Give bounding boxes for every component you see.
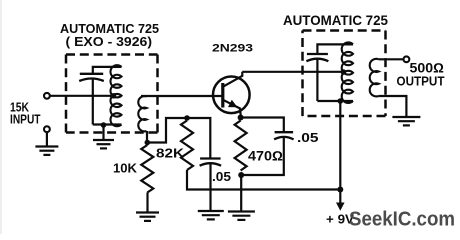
resistor 82K (bias) <box>181 121 193 171</box>
node: emitter junction <box>238 115 244 121</box>
ground: inside T1 box <box>93 139 114 141</box>
wire: 470 bottom to ground <box>240 175 242 212</box>
node: tank bottom / ground junction <box>101 122 107 128</box>
wire: T2 tank cap bottom lead <box>316 59 318 102</box>
wire: bypass cap bottom back to 470 bottom <box>241 137 284 175</box>
svg-text:INPUT: INPUT <box>10 112 41 127</box>
inductor: T1 secondary winding <box>138 96 146 131</box>
node: input tap on T1 primary <box>111 93 117 99</box>
capacitor inside T1 (tank cap) <box>80 73 103 75</box>
transistor base bar <box>221 83 224 108</box>
node: 470 bottom junction <box>238 172 244 178</box>
dashed shield box of transformer T2 <box>303 29 386 32</box>
transistor emitter lead <box>223 100 241 118</box>
output terminal <box>404 56 410 62</box>
wire: T2 secondary top to output terminal <box>379 58 404 60</box>
svg-text:470Ω: 470Ω <box>248 149 283 164</box>
wire: T1 secondary bottom stem <box>146 131 148 143</box>
wire: emitter to bypass cap <box>241 118 284 132</box>
emitter arrowhead (NPN) <box>228 100 238 108</box>
wire: tank cap bottom lead <box>92 78 94 124</box>
wire: ground terminal stem <box>46 132 48 147</box>
scan edge artifact <box>0 0 2 234</box>
svg-text:.05: .05 <box>212 169 231 184</box>
wire: T2 bottom to +9V node <box>339 101 341 190</box>
node: +9V junction <box>337 187 343 193</box>
svg-text:.05: .05 <box>297 130 319 145</box>
svg-text:AUTOMATIC 725: AUTOMATIC 725 <box>283 12 388 28</box>
svg-text:OUTPUT: OUTPUT <box>397 74 445 89</box>
svg-text:SeekIC.com: SeekIC.com <box>349 209 455 231</box>
svg-text:( EXO - 3926): ( EXO - 3926) <box>66 34 153 49</box>
wire: T1 tank bottom rail <box>93 123 122 125</box>
inductor: T2 primary winding <box>342 42 353 102</box>
inductor: T1 primary winding <box>110 65 121 126</box>
wire: .05 bottom to ground <box>209 163 211 211</box>
svg-text:10K: 10K <box>113 161 138 176</box>
transistor Q1 2N293 circle <box>213 77 250 114</box>
wire: input terminal to T1 primary tap <box>50 95 113 97</box>
wire: T2 secondary bottom to ground <box>379 96 407 117</box>
wire: 82K bottom to +9V rail <box>187 170 340 190</box>
wire: secondary bottom to 82K/cap rail <box>147 118 210 158</box>
capacitor .05 (emitter bypass) <box>275 131 294 133</box>
wire: collector to T2 primary tap <box>242 71 343 73</box>
wire: T2 tank top rail <box>317 44 353 53</box>
node: secondary bottom junction <box>145 140 151 146</box>
wire: tank bottom to ground <box>102 125 104 140</box>
node: 82K top junction <box>184 115 190 121</box>
wire: 10K to ground <box>146 193 148 213</box>
capacitor inside T2 (tank cap) <box>307 53 328 55</box>
ground: output return <box>392 116 420 118</box>
resistor 470 ohm (emitter) <box>235 121 247 171</box>
capacitor .05 (middle, rail to ground) <box>200 157 221 159</box>
inductor: T2 secondary winding <box>370 59 379 97</box>
+9V supply arrow <box>339 192 341 204</box>
input terminal (ground side) <box>44 126 50 132</box>
resistor 10K (secondary return to ground) <box>141 145 153 193</box>
wire: T2 tank bottom rail <box>317 100 353 102</box>
svg-text:2N293: 2N293 <box>212 43 253 55</box>
ground: below middle .05 <box>198 210 224 212</box>
node: T2 tank bottom junction <box>338 98 344 104</box>
transistor collector lead <box>223 72 243 87</box>
wire: T1 secondary top to transistor base <box>141 95 223 97</box>
ground: below 470 <box>228 210 255 212</box>
ground: input <box>35 145 58 147</box>
dashed shield box of transformer T1 <box>66 53 158 56</box>
node: collector tap on T2 primary <box>341 69 347 75</box>
input terminal (hot) <box>44 93 50 99</box>
ground: below 10K <box>136 211 159 213</box>
wire: T1 tank top rail <box>93 67 122 74</box>
